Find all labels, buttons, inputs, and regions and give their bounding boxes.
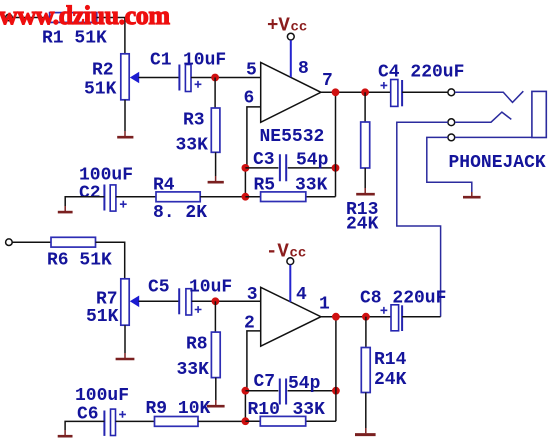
wire C1 to opamp pin5 bbox=[191, 77, 261, 79]
svg-text:54p: 54p bbox=[296, 150, 328, 170]
svg-text:5: 5 bbox=[246, 60, 257, 80]
wire feedback rail left bbox=[244, 168, 246, 197]
wire +Vcc to pin 8 bbox=[290, 40, 292, 77]
svg-text:24K: 24K bbox=[346, 214, 379, 234]
svg-text:C3: C3 bbox=[253, 150, 275, 170]
resistor R8 bbox=[211, 332, 220, 378]
svg-text:4: 4 bbox=[296, 285, 307, 305]
wire feedback rail right bbox=[335, 92, 337, 196]
svg-text:C7: C7 bbox=[254, 372, 276, 392]
wire R13 bottom bbox=[364, 168, 366, 188]
wire C2 to R4 bbox=[116, 196, 156, 198]
wire feedback rail 2 right bbox=[335, 317, 337, 422]
wire input2 to R6 bbox=[12, 241, 51, 243]
node output2 1 bbox=[332, 313, 340, 321]
wire opamp output bbox=[321, 91, 391, 93]
wire R2 bottom bbox=[124, 100, 126, 131]
node ring terminal bbox=[448, 119, 455, 126]
svg-text:1: 1 bbox=[319, 294, 330, 314]
node C7 left bbox=[242, 387, 250, 395]
svg-text:-V: -V bbox=[266, 240, 289, 262]
node C7 right bbox=[332, 387, 340, 395]
svg-text:C8 220uF: C8 220uF bbox=[360, 288, 446, 308]
svg-text:33K: 33K bbox=[176, 135, 209, 155]
capacitor C1 bbox=[178, 65, 180, 91]
resistor R13 bbox=[361, 122, 370, 168]
potentiometer R2 bbox=[121, 54, 129, 100]
wire R3 bottom bbox=[215, 152, 217, 176]
ground R7 bbox=[124, 353, 126, 358]
svg-text:7: 7 bbox=[322, 71, 333, 91]
resistor R6 bbox=[51, 237, 96, 247]
svg-text:R2: R2 bbox=[92, 60, 114, 80]
wire R7 bottom bbox=[124, 325, 126, 353]
svg-text:PHONEJACK: PHONEJACK bbox=[449, 153, 546, 173]
wire C6 to R9 bbox=[116, 420, 155, 422]
capacitor C4 bbox=[391, 80, 398, 107]
svg-text:www.dziuu.com: www.dziuu.com bbox=[0, 1, 170, 30]
resistor R3 bbox=[211, 108, 220, 152]
node IN1 terminal bbox=[6, 14, 13, 21]
wire C2 left to ground bbox=[65, 197, 104, 206]
wire tip contact bbox=[455, 91, 524, 102]
wire R7 wiper to C5 bbox=[139, 300, 180, 302]
node IN2 terminal bbox=[6, 239, 13, 246]
wire C6 left to ground bbox=[65, 421, 104, 430]
svg-text:33K: 33K bbox=[295, 175, 328, 195]
wire R14 top bbox=[365, 317, 367, 348]
wire opamp2 output bbox=[321, 316, 391, 318]
capacitor C3 bbox=[245, 167, 335, 169]
node sleeve terminal bbox=[448, 134, 455, 141]
wire input1 to R1 bbox=[12, 17, 49, 19]
capacitor C2 bbox=[103, 185, 105, 211]
svg-text:54p: 54p bbox=[288, 374, 320, 394]
wire node A to R3 bbox=[214, 78, 216, 109]
svg-text:C5: C5 bbox=[148, 277, 170, 297]
svg-text:8: 8 bbox=[298, 59, 309, 79]
ground R3 bbox=[215, 176, 217, 181]
resistor R4 bbox=[156, 192, 200, 202]
svg-text:R9 10K: R9 10K bbox=[146, 399, 211, 419]
wire feedback rail 2 left bbox=[244, 391, 246, 422]
op-amp U1A bbox=[261, 62, 321, 122]
svg-text:R4: R4 bbox=[153, 175, 175, 195]
node C3 right bbox=[332, 164, 340, 172]
svg-text:3: 3 bbox=[247, 285, 258, 305]
wire pin6 to feedback rail bbox=[247, 107, 261, 168]
resistor R9 bbox=[155, 417, 199, 427]
svg-text:100uF: 100uF bbox=[75, 386, 129, 406]
wire R4 to node B bbox=[200, 196, 245, 198]
capacitor C6 bbox=[103, 411, 105, 436]
svg-text:R6 51K: R6 51K bbox=[47, 250, 112, 270]
potentiometer R7 bbox=[121, 279, 129, 325]
capacitor C7 bbox=[245, 390, 336, 392]
svg-text:R10: R10 bbox=[248, 400, 280, 420]
ground R2 bbox=[124, 131, 126, 136]
wire sleeve to ground bbox=[427, 137, 472, 192]
svg-text:8. 2K: 8. 2K bbox=[153, 203, 207, 223]
node A junction bbox=[211, 74, 219, 82]
svg-text:R14: R14 bbox=[374, 350, 407, 370]
wire R1 to R2 top bbox=[97, 18, 125, 54]
capacitor C5 bbox=[178, 288, 180, 314]
wire R6 to R7 top bbox=[96, 242, 125, 279]
wire -Vcc to pin 4 bbox=[289, 265, 291, 302]
resistor R10 bbox=[245, 420, 336, 422]
wire R14 bottom bbox=[365, 393, 367, 429]
node C3 left bbox=[242, 164, 250, 172]
wire R2 wiper to C1 bbox=[139, 77, 180, 79]
wire sleeve to jack body bbox=[455, 136, 532, 138]
node R10 left bbox=[242, 417, 250, 425]
node tip terminal bbox=[448, 89, 455, 96]
phone jack body bbox=[532, 91, 546, 137]
svg-text:R1 51K: R1 51K bbox=[42, 28, 107, 48]
wire R8 bottom bbox=[215, 378, 217, 400]
capacitor C8 bbox=[391, 305, 399, 331]
svg-text:100uF: 100uF bbox=[79, 165, 133, 185]
resistor R5 bbox=[245, 196, 335, 198]
svg-text:51K: 51K bbox=[84, 79, 117, 99]
svg-text:R8: R8 bbox=[186, 335, 208, 355]
wire C4 to tip terminal bbox=[402, 91, 448, 93]
node R5 left bbox=[242, 193, 250, 201]
svg-text:NE5532: NE5532 bbox=[260, 127, 325, 147]
svg-text:33K: 33K bbox=[177, 360, 210, 380]
ground R14 bbox=[365, 428, 367, 433]
ground R13 bbox=[364, 188, 366, 193]
node output 2 bbox=[361, 88, 369, 96]
svg-text:C1: C1 bbox=[150, 50, 172, 70]
node output2 2 bbox=[362, 313, 370, 321]
wire ring to C8 output bbox=[397, 122, 448, 317]
wire ring contact bbox=[455, 112, 512, 122]
ground C2 bbox=[64, 206, 66, 211]
svg-text:10uF: 10uF bbox=[183, 50, 226, 70]
svg-text:51K: 51K bbox=[86, 307, 119, 327]
wire node D to R8 bbox=[214, 301, 216, 332]
node D junction bbox=[212, 297, 220, 305]
ground R8 bbox=[215, 400, 217, 405]
op-amp U1B bbox=[261, 287, 321, 346]
wire pin2 to feedback rail 2 bbox=[247, 331, 261, 391]
resistor R1 bbox=[50, 13, 97, 23]
svg-text:R5: R5 bbox=[254, 175, 276, 195]
ground phone jack bbox=[471, 192, 473, 196]
svg-text:6: 6 bbox=[244, 88, 255, 108]
wire C5 to opamp pin3 bbox=[192, 300, 261, 302]
svg-text:24K: 24K bbox=[374, 370, 407, 390]
svg-text:R3: R3 bbox=[183, 110, 205, 130]
wire R9 to node E bbox=[198, 420, 245, 422]
svg-text:C2: C2 bbox=[79, 183, 101, 203]
svg-text:10uF: 10uF bbox=[189, 277, 232, 297]
ground C6 bbox=[64, 430, 66, 435]
svg-text:33K: 33K bbox=[293, 400, 326, 420]
wire C8 to ring wire bbox=[402, 316, 441, 318]
svg-text:+V: +V bbox=[267, 15, 290, 37]
svg-text:C4 220uF: C4 220uF bbox=[378, 62, 464, 82]
wire R13 top bbox=[364, 92, 366, 122]
node output 1 bbox=[332, 88, 340, 96]
resistor R14 bbox=[361, 348, 370, 393]
